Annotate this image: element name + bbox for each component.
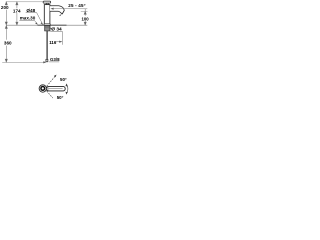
svg-text:25 - 45°: 25 - 45° (68, 3, 85, 8)
node hose coupling (46, 59, 48, 62)
node top view body circle (39, 85, 46, 92)
svg-text:max.30: max.30 (20, 16, 36, 21)
node shank threaded (45, 26, 50, 31)
node bottom extension line (2, 61, 44, 63)
node leader 25-45 (51, 8, 88, 10)
node spout outlet face (62, 11, 64, 14)
node swing arc (66, 84, 68, 94)
svg-text:100: 100 (82, 16, 90, 21)
svg-text:200: 200 (1, 5, 9, 10)
svg-text:116: 116 (49, 40, 57, 45)
svg-text:Ø48: Ø48 (26, 8, 35, 13)
svg-text:G3/8: G3/8 (50, 57, 60, 62)
node faucet body (44, 5, 50, 26)
node dashed swing lower (47, 91, 53, 98)
node top view lever (46, 86, 65, 91)
background (0, 0, 100, 100)
svg-text:50°: 50° (57, 95, 64, 100)
node base flare (44, 24, 51, 26)
svg-text:360: 360 (4, 40, 12, 45)
node dim line 200/360 (5, 2, 7, 62)
node deck line (38, 24, 67, 26)
wire top extension line (6, 1, 43, 3)
svg-text:174: 174 (13, 8, 21, 13)
wire deck extension line (6, 24, 87, 26)
node lever neck (46, 3, 48, 4)
node dim line 174 (16, 2, 18, 25)
node outlet ref line (81, 10, 88, 12)
node faucet lever (43, 1, 51, 3)
svg-text:50°: 50° (60, 77, 67, 82)
node stream arrow (60, 14, 61, 15)
node top view inner circle (41, 87, 45, 91)
node dim line 100 (84, 9, 86, 25)
wire 116 extension (61, 31, 63, 44)
node spout (50, 6, 64, 14)
node hoses (46, 31, 48, 60)
node dashed swing upper (47, 76, 56, 86)
